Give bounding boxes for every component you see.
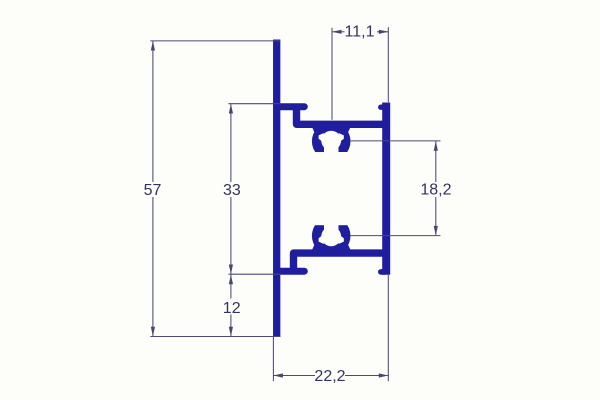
bottom right nub xyxy=(381,269,385,275)
dimension texts xyxy=(144,181,452,385)
right wall xyxy=(382,103,390,275)
dim 22,2 left extension line xyxy=(272,337,274,382)
dim 18,2 bottom extension line xyxy=(351,235,441,237)
dim 18,2 vertical line xyxy=(435,141,437,182)
arrow 22,2 left xyxy=(273,373,283,377)
bottom screw boss cutouts xyxy=(305,215,358,246)
dim 11,1 line xyxy=(332,31,345,33)
arrow 22,2 right xyxy=(379,373,389,377)
arrow 33 bottom xyxy=(229,265,233,275)
dim 33 vertical line xyxy=(230,104,232,182)
arrow 33 top xyxy=(229,104,233,114)
dim 12 vertical line xyxy=(230,275,232,299)
top right nub xyxy=(381,104,385,109)
arrow 57 top xyxy=(151,41,155,51)
arrow 11,1 right xyxy=(379,30,389,34)
top left ledge (glazing hook) xyxy=(277,103,304,110)
svg-text:18,2: 18,2 xyxy=(420,181,451,198)
left fin (vertical flange) xyxy=(273,40,280,337)
arrow 11,1 left xyxy=(332,30,342,34)
svg-text:11,1: 11,1 xyxy=(345,24,375,41)
svg-text:12: 12 xyxy=(223,300,241,317)
top screw boss U1 outer xyxy=(312,122,351,161)
arrow 12 bottom xyxy=(229,327,233,337)
bottom web + connector xyxy=(294,253,387,271)
dim 22,2 right extension line xyxy=(387,275,389,381)
dim 33 top extension line xyxy=(228,103,281,105)
arrow 18,2 top xyxy=(434,141,438,151)
dim 18,2 top extension line xyxy=(351,140,441,142)
svg-text:57: 57 xyxy=(144,182,162,199)
dimension lines xyxy=(150,27,440,381)
bottom screw boss outer xyxy=(312,216,351,255)
top screw boss cutouts xyxy=(305,131,358,162)
dim 11,1 right extension line xyxy=(387,27,389,102)
dim 57 top extension line xyxy=(150,40,280,42)
arrow 18,2 bottom xyxy=(434,226,438,236)
arrow 57 bottom xyxy=(151,327,155,337)
top connector + top web xyxy=(297,107,387,124)
dim 57 vertical line xyxy=(152,41,154,182)
svg-text:22,2: 22,2 xyxy=(314,368,345,385)
bottom left ledge xyxy=(277,268,304,275)
dim 57 / 12 bottom extension line xyxy=(150,336,280,338)
arrow 12 top xyxy=(229,275,233,285)
arrowheads xyxy=(151,30,438,378)
dim 22,2 line xyxy=(273,375,315,377)
dim 33/12 shared extension line xyxy=(228,273,281,275)
svg-text:33: 33 xyxy=(223,182,241,199)
dim 11,1 left extension line xyxy=(331,28,333,120)
